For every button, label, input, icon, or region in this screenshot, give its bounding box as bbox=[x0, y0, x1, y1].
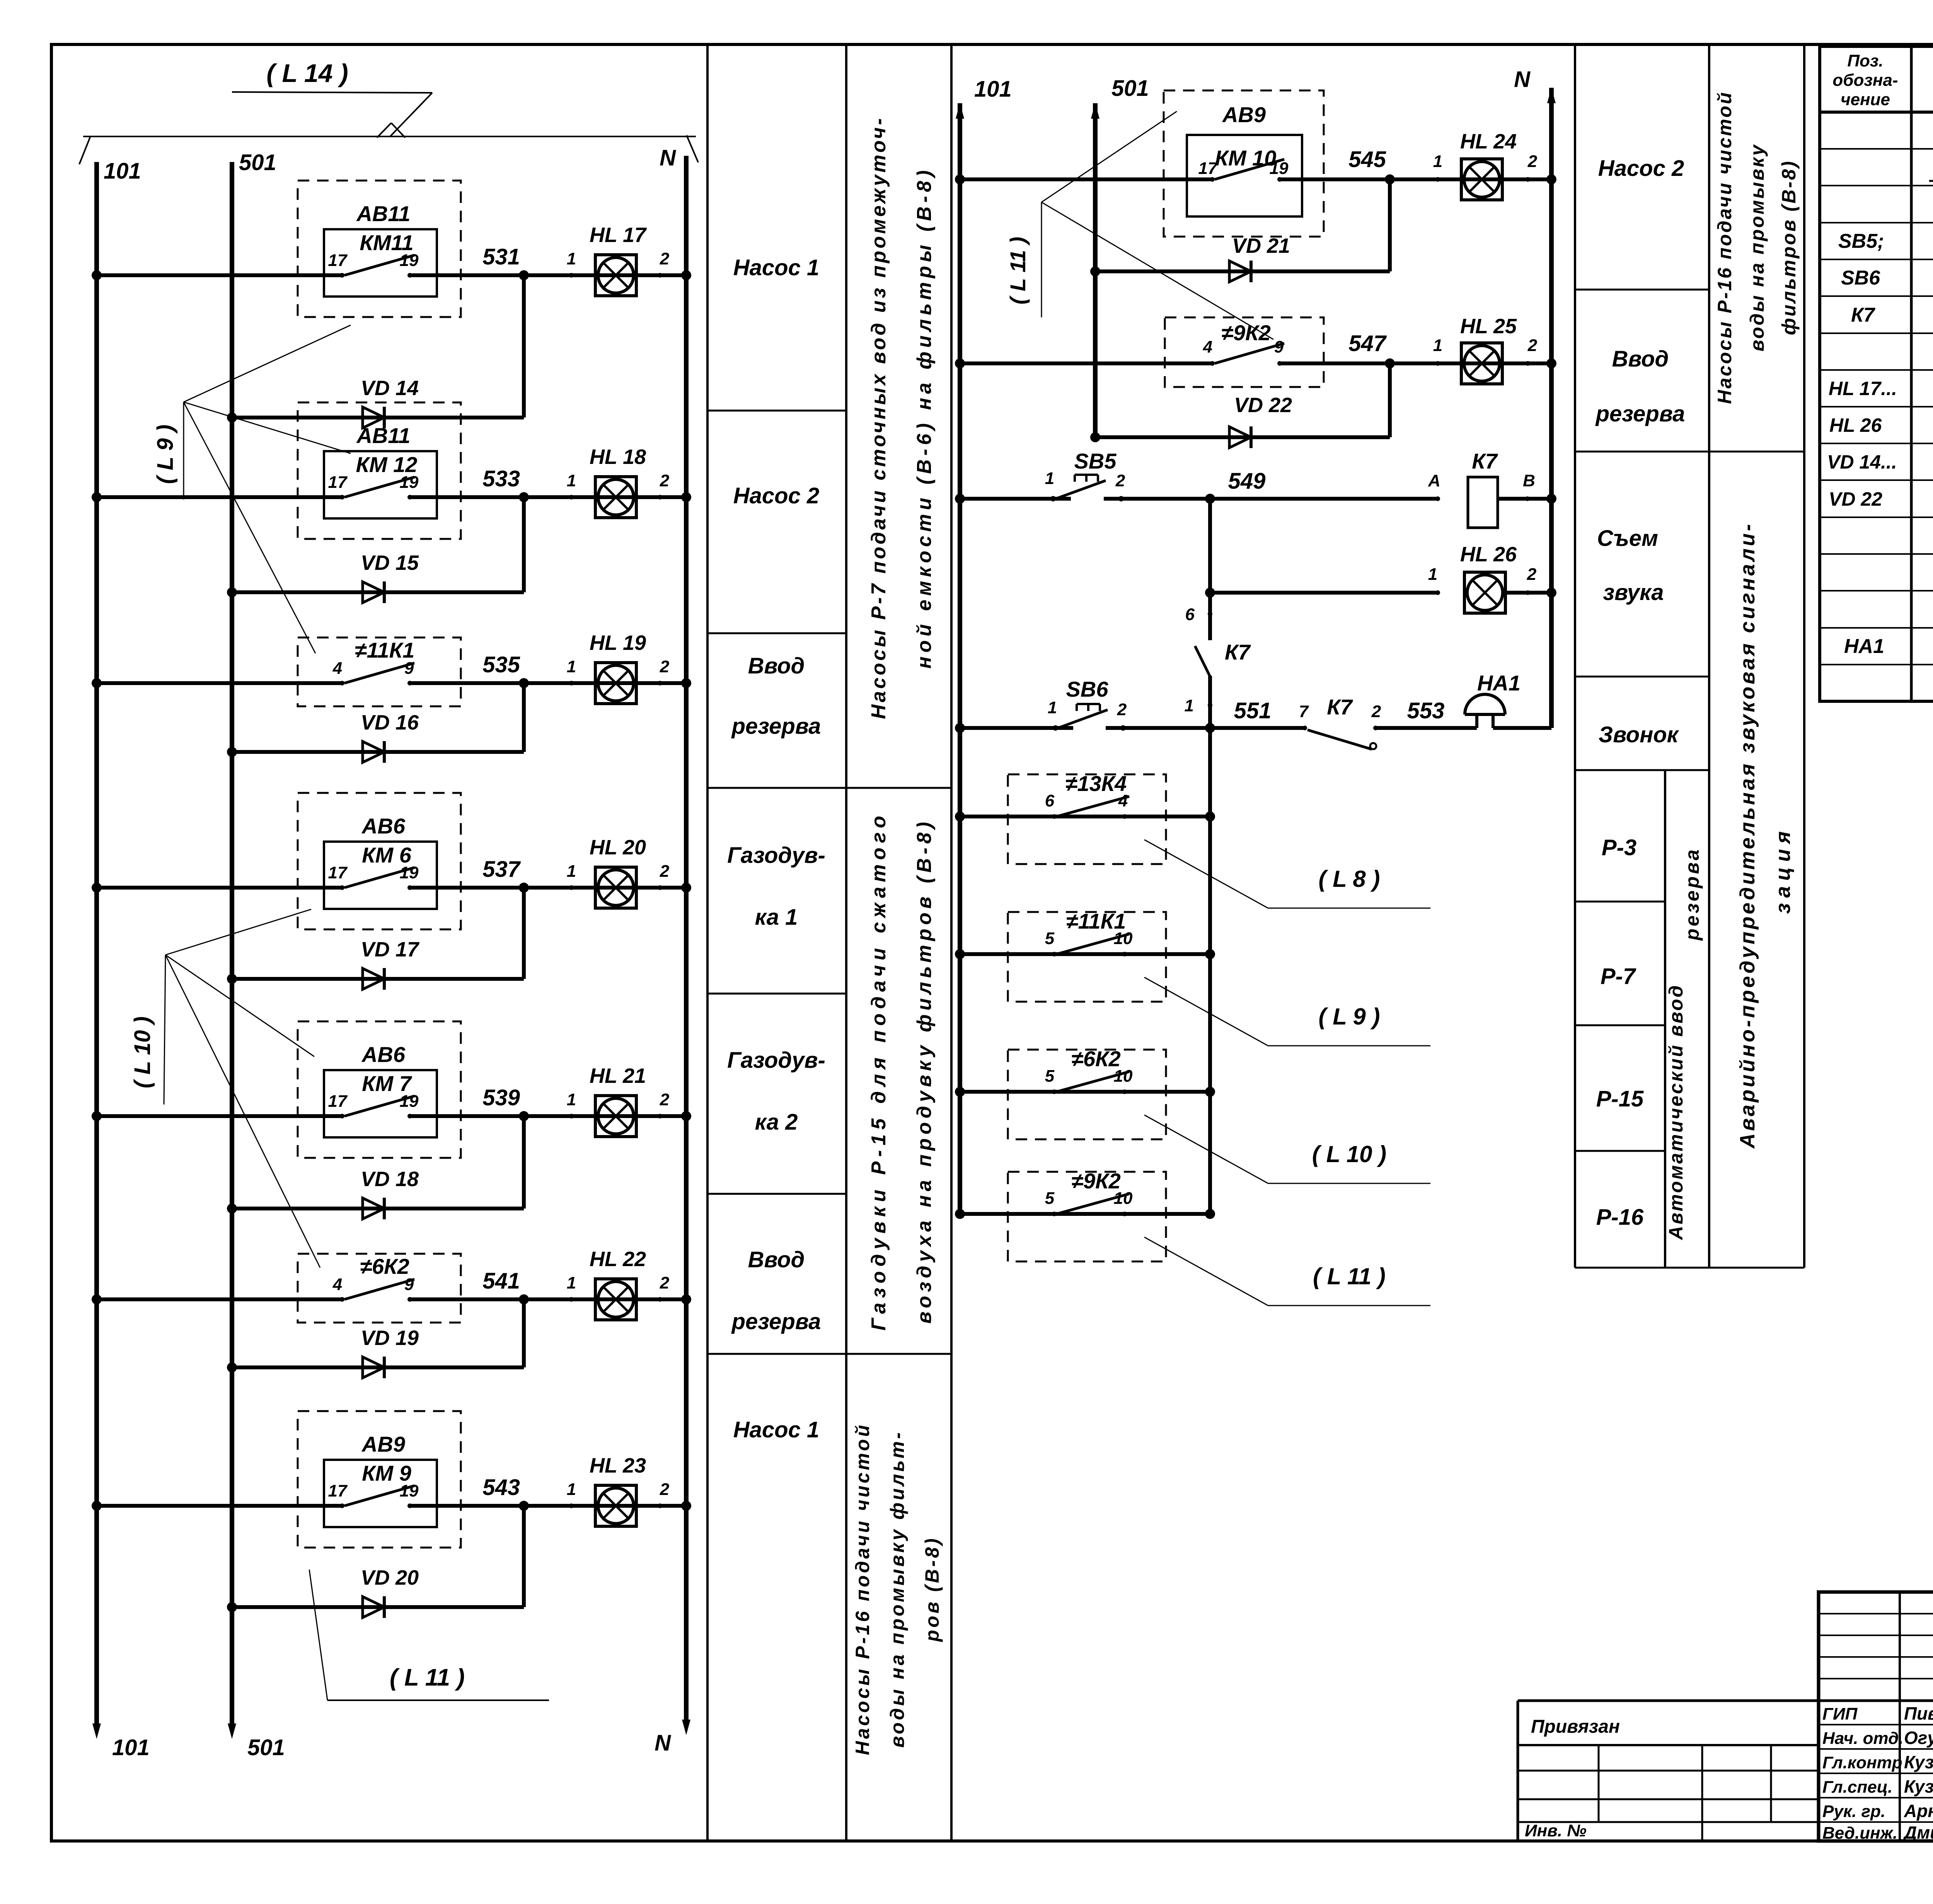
junction bus501 VD 17 bbox=[227, 974, 237, 984]
svg-text:≠11К1: ≠11К1 bbox=[355, 638, 414, 662]
svg-text:Дмитриева: Дмитриева bbox=[1902, 1822, 1933, 1843]
junction mid wire ≠11К1 bbox=[1205, 949, 1215, 959]
diode VD 16 bbox=[232, 750, 524, 754]
svg-text:≠9К2: ≠9К2 bbox=[1071, 1169, 1120, 1193]
svg-text:533: 533 bbox=[482, 466, 520, 491]
wire branch rung ≠9К2 bbox=[960, 1212, 1210, 1216]
svg-text:1: 1 bbox=[567, 657, 576, 676]
svg-text:1: 1 bbox=[567, 249, 576, 268]
junction bus101 rung 551 bbox=[955, 723, 965, 733]
contact ≠11К1 (pins 5-10) bbox=[1052, 952, 1057, 956]
lamp HL 20 bbox=[595, 867, 636, 908]
svg-text:531: 531 bbox=[482, 244, 520, 269]
diode VD 22 bbox=[1095, 435, 1390, 439]
wire 539 contact to lamp bbox=[410, 1114, 660, 1118]
svg-text:6: 6 bbox=[1185, 605, 1195, 624]
wire lamp HL25 to bus N bbox=[1528, 361, 1551, 365]
wire branch rung ≠11К1 bbox=[960, 952, 1210, 956]
svg-text:501: 501 bbox=[239, 150, 276, 175]
contact ≠6К2 (pins 4-9) bbox=[340, 1297, 344, 1302]
diode VD 17 bbox=[232, 977, 524, 981]
junction bus N rung 537 bbox=[681, 883, 691, 893]
svg-text:1: 1 bbox=[1428, 565, 1437, 584]
contact АВ11/КМ11 (pins 17-19) bbox=[340, 273, 344, 278]
junction bus101 ≠13К4 bbox=[955, 811, 965, 822]
leader and net label ( L 10 ) bbox=[1144, 1115, 1268, 1183]
svg-text:SB5;: SB5; bbox=[1838, 230, 1884, 252]
svg-text:ка 1: ка 1 bbox=[755, 905, 798, 930]
wire rung 543 from bus 101 bbox=[97, 1504, 342, 1508]
pin 1 of HL 17 bbox=[569, 273, 574, 278]
lamp HL 18 bbox=[595, 477, 636, 518]
wire rung 537 from bus 101 bbox=[97, 886, 342, 890]
svg-text:VD 18: VD 18 bbox=[361, 1168, 419, 1191]
svg-text:резерва: резерва bbox=[1595, 401, 1685, 426]
node 549 bbox=[1205, 494, 1215, 504]
svg-text:2: 2 bbox=[1371, 702, 1381, 721]
wire diode VD 15 to node 533 bbox=[522, 497, 526, 592]
svg-text:HL 17: HL 17 bbox=[590, 223, 647, 247]
pin 1 of HL 25 bbox=[1435, 361, 1440, 366]
svg-text:9: 9 bbox=[1274, 338, 1284, 356]
contact АВ6/КМ 6 (pins 17-19) bbox=[340, 885, 344, 890]
wire VD21 to node 545 bbox=[1388, 179, 1392, 271]
dashed enclosure АВ9 bbox=[298, 1411, 461, 1548]
lamp HL 25 bbox=[1461, 343, 1502, 384]
svg-text:( L 11 ): ( L 11 ) bbox=[1006, 237, 1030, 304]
pin 2 of HL 25 bbox=[1526, 361, 1530, 366]
svg-text:HL 24: HL 24 bbox=[1460, 130, 1517, 153]
svg-text:≠6К2: ≠6К2 bbox=[360, 1254, 409, 1278]
svg-text:АВ9: АВ9 bbox=[1222, 102, 1266, 127]
dashed enclosure ≠9К2 bbox=[1165, 317, 1324, 387]
junction node 549-551 HL26 bbox=[1205, 588, 1215, 598]
junction bus N rung 535 bbox=[681, 678, 691, 688]
pin 1 of HL 18 bbox=[569, 495, 574, 499]
svg-text:( L 10 ): ( L 10 ) bbox=[130, 1016, 155, 1088]
lamp HL 17 bbox=[595, 255, 636, 296]
relay coil K7 bbox=[1468, 477, 1498, 528]
svg-text:N: N bbox=[655, 1730, 671, 1756]
svg-text:ров (В-8): ров (В-8) bbox=[921, 1536, 943, 1642]
leader fan (L11) mid bbox=[1041, 202, 1042, 317]
pin 2 of HL 19 bbox=[658, 681, 662, 685]
pin 2 of K7 contact bbox=[1373, 726, 1378, 730]
svg-text:2: 2 bbox=[660, 249, 670, 268]
svg-text:Огурцов: Огурцов bbox=[1904, 1728, 1933, 1748]
svg-text:HL 26: HL 26 bbox=[1829, 414, 1882, 436]
contact АВ9/КМ 9 (pins 17-19) bbox=[340, 1503, 344, 1508]
dashed enclosure АВ9 bbox=[1164, 90, 1324, 237]
pin A of K7 bbox=[1435, 496, 1440, 501]
svg-text:547: 547 bbox=[1348, 331, 1387, 356]
svg-text:( L 14 ): ( L 14 ) bbox=[266, 59, 348, 87]
svg-text:( L 8 ): ( L 8 ) bbox=[1319, 866, 1380, 892]
dashed enclosure АВ11 bbox=[298, 402, 461, 539]
svg-text:резерва: резерва bbox=[731, 1309, 821, 1334]
svg-text:Привязан: Привязан bbox=[1531, 1716, 1620, 1737]
svg-text:VD 16: VD 16 bbox=[361, 711, 419, 734]
junction bus N HL26 bbox=[1546, 588, 1556, 598]
node 531 bbox=[519, 270, 529, 280]
wire rung 539 from bus 101 bbox=[97, 1114, 342, 1118]
lamp HL 21 bbox=[595, 1096, 636, 1137]
svg-text:N: N bbox=[660, 145, 676, 170]
svg-text:2: 2 bbox=[1117, 700, 1127, 719]
lamp HL 23 bbox=[595, 1485, 636, 1526]
dashed enclosure ≠11К1 bbox=[1008, 912, 1166, 1002]
svg-text:1: 1 bbox=[567, 1090, 576, 1109]
svg-text:541: 541 bbox=[482, 1268, 520, 1294]
svg-text:Насосы Р-16 подачи чистой: Насосы Р-16 подачи чистой bbox=[852, 1423, 873, 1755]
svg-text:К7: К7 bbox=[1851, 304, 1875, 326]
svg-text:КМ 12: КМ 12 bbox=[356, 452, 418, 477]
svg-text:539: 539 bbox=[482, 1085, 520, 1110]
contact АВ9/КМ10 (pins 17-19) bbox=[1210, 177, 1215, 182]
leader fan (L10) bbox=[164, 955, 165, 1105]
svg-text:≠6К2: ≠6К2 bbox=[1071, 1047, 1120, 1071]
svg-text:Гл.спец.: Гл.спец. bbox=[1822, 1778, 1892, 1797]
svg-text:К7: К7 bbox=[1327, 695, 1353, 719]
svg-text:VD 19: VD 19 bbox=[361, 1326, 419, 1350]
pin 7 of K7 contact bbox=[1302, 726, 1307, 730]
wire rung 545 from bus 101 bbox=[960, 177, 1212, 181]
node 537 bbox=[519, 883, 529, 893]
junction bus101 ≠11К1 bbox=[955, 949, 965, 959]
pin 1 of HL 26 bbox=[1435, 590, 1440, 595]
svg-text:HL 17...: HL 17... bbox=[1829, 378, 1897, 399]
wire 533 contact to lamp bbox=[410, 495, 660, 499]
svg-text:НА1: НА1 bbox=[1844, 635, 1884, 658]
svg-text:Звонок: Звонок bbox=[1599, 722, 1679, 747]
pin 2 of HL 20 bbox=[658, 885, 662, 890]
dashed enclosure АВ11 bbox=[298, 181, 461, 317]
svg-text:Ввод: Ввод bbox=[748, 653, 805, 678]
svg-text:Насос 1: Насос 1 bbox=[733, 255, 819, 280]
svg-text:зация: зация bbox=[1771, 826, 1795, 914]
contact ≠9К2 (pins 4-9) bbox=[1210, 361, 1215, 366]
svg-text:2: 2 bbox=[660, 1090, 670, 1109]
junction bus101 rung 537 bbox=[92, 883, 102, 893]
svg-text:фильтров (В-8): фильтров (В-8) bbox=[1778, 160, 1800, 335]
contact K7 in bell circuit bbox=[1307, 730, 1372, 749]
svg-text:17: 17 bbox=[328, 251, 348, 270]
svg-text:17: 17 bbox=[328, 1481, 348, 1500]
wire 541 contact to lamp bbox=[410, 1297, 660, 1301]
junction mid wire ≠9К2 bbox=[1205, 1209, 1215, 1219]
svg-text:КМ 7: КМ 7 bbox=[362, 1071, 413, 1096]
junction mid wire ≠13К4 bbox=[1205, 811, 1215, 822]
svg-text:HL 19: HL 19 bbox=[590, 631, 646, 655]
wire 531 contact to lamp bbox=[410, 273, 660, 277]
junction bus501 VD21 bbox=[1090, 266, 1100, 276]
svg-text:VD 14...: VD 14... bbox=[1827, 451, 1897, 473]
pin 1 of HL 19 bbox=[569, 681, 574, 685]
svg-text:1: 1 bbox=[1185, 696, 1194, 715]
svg-text:1: 1 bbox=[1045, 469, 1054, 488]
junction bus101 ≠9К2 bbox=[955, 1209, 965, 1219]
svg-text:535: 535 bbox=[482, 652, 520, 677]
wire 549 to relay K7 bbox=[1104, 497, 1438, 501]
svg-text:А: А bbox=[1428, 471, 1440, 490]
pin 1 of HL 20 bbox=[569, 885, 574, 890]
contactor box КМ11 bbox=[324, 229, 437, 297]
wire rung 541 from bus 101 bbox=[97, 1297, 342, 1301]
svg-text:1: 1 bbox=[567, 1480, 576, 1499]
pin 2 of HL 22 bbox=[658, 1297, 662, 1302]
svg-text:Насос 2: Насос 2 bbox=[1598, 156, 1684, 181]
svg-text:101: 101 bbox=[104, 159, 141, 184]
bell HA1 bbox=[1475, 714, 1478, 728]
svg-text:SB6: SB6 bbox=[1841, 267, 1880, 289]
svg-text:ной емкости (В-6) на фильтр: ной емкости (В-6) на фильтры (В-8) bbox=[913, 167, 936, 669]
wire lamp HL24 to bus N bbox=[1528, 177, 1551, 181]
node 547 bbox=[1385, 358, 1395, 368]
svg-text:HL 22: HL 22 bbox=[590, 1248, 646, 1271]
junction bus101 rung 543 bbox=[92, 1501, 102, 1511]
svg-text:2: 2 bbox=[660, 1480, 670, 1499]
dashed enclosure ≠6К2 bbox=[1008, 1050, 1166, 1139]
title block verticals bbox=[1899, 1592, 1901, 1841]
junction bus501 VD 14 bbox=[227, 413, 237, 423]
svg-text:Рук. гр.: Рук. гр. bbox=[1822, 1802, 1885, 1821]
svg-text:КМ 9: КМ 9 bbox=[362, 1461, 411, 1485]
parts table row lines bbox=[1820, 148, 1933, 150]
svg-text:537: 537 bbox=[482, 857, 521, 882]
svg-text:Ввод: Ввод bbox=[1612, 346, 1669, 372]
svg-text:КМ 10: КМ 10 bbox=[1215, 146, 1277, 170]
svg-text:HL 26: HL 26 bbox=[1460, 543, 1517, 566]
leader and net label ( L 9 ) bbox=[1144, 977, 1268, 1046]
wire diode VD 17 to node 537 bbox=[522, 888, 526, 979]
svg-text:1: 1 bbox=[1048, 698, 1057, 717]
svg-text:КМ 6: КМ 6 bbox=[362, 843, 412, 867]
bus 101 (mid ladder) bbox=[958, 103, 962, 1214]
wire rung 551 from bus 101 bbox=[960, 726, 1073, 730]
junction bus101 rung 541 bbox=[92, 1294, 102, 1304]
svg-text:Насосы Р-16 подачи чистой: Насосы Р-16 подачи чистой bbox=[1714, 91, 1735, 404]
svg-text:ГИП: ГИП bbox=[1822, 1705, 1858, 1723]
bus 501 (mid ladder) bbox=[1093, 103, 1098, 437]
dashed enclosure ≠9К2 bbox=[1008, 1172, 1166, 1261]
leader and net label ( L 11 ) bbox=[1144, 1237, 1268, 1306]
wire lamp to bus N rung 537 bbox=[660, 886, 686, 890]
wire 535 contact to lamp bbox=[410, 681, 660, 685]
svg-text:КМ11: КМ11 bbox=[360, 230, 413, 255]
svg-text:VD 17: VD 17 bbox=[361, 938, 420, 961]
pin 1 of HL 24 bbox=[1435, 177, 1440, 182]
svg-text:VD 22: VD 22 bbox=[1234, 394, 1292, 417]
parts table header line bbox=[1820, 111, 1933, 114]
junction bus101 rung 531 bbox=[92, 270, 102, 280]
pin 1 of HL 21 bbox=[569, 1114, 574, 1118]
wire branch rung ≠6К2 bbox=[960, 1090, 1210, 1094]
pin 2 of HL 23 bbox=[658, 1503, 662, 1508]
wire lamp to bus N rung 543 bbox=[660, 1504, 686, 1508]
node 533 bbox=[519, 492, 529, 502]
svg-text:( L 11 ): ( L 11 ) bbox=[390, 1664, 465, 1691]
svg-text:резерва: резерва bbox=[731, 714, 821, 739]
left label column lines bbox=[706, 46, 709, 1840]
svg-text:5: 5 bbox=[1045, 929, 1055, 948]
svg-text:2: 2 bbox=[660, 657, 670, 676]
wire lamp to bus N rung 539 bbox=[660, 1114, 686, 1118]
diode VD 18 bbox=[232, 1207, 524, 1210]
wire to lamp HL26 bbox=[1210, 591, 1438, 595]
wire 547 contact to lamp bbox=[1280, 361, 1528, 365]
svg-text:Пивторак: Пивторак bbox=[1904, 1703, 1933, 1723]
svg-text:HL 18: HL 18 bbox=[590, 445, 646, 469]
svg-text:Нач. отд.: Нач. отд. bbox=[1822, 1729, 1904, 1748]
push button SB5 bbox=[1050, 496, 1056, 501]
svg-text:≠9К2: ≠9К2 bbox=[1221, 320, 1270, 345]
contact ≠11К1 (pins 4-9) bbox=[340, 681, 344, 685]
svg-text:( L 10 ): ( L 10 ) bbox=[1312, 1141, 1386, 1167]
svg-text:5: 5 bbox=[1045, 1067, 1055, 1086]
svg-text:101: 101 bbox=[112, 1735, 150, 1760]
group line bracket (L14) bbox=[83, 136, 696, 137]
svg-text:( L 9 ): ( L 9 ) bbox=[1319, 1004, 1380, 1030]
contact АВ11/КМ 12 (pins 17-19) bbox=[340, 495, 344, 499]
junction bus101 rung 545 bbox=[955, 174, 965, 184]
wire 543 contact to lamp bbox=[410, 1504, 660, 1508]
svg-text:17: 17 bbox=[328, 863, 348, 882]
svg-text:Р-7: Р-7 bbox=[1601, 964, 1636, 989]
wire VD22 to node 547 bbox=[1388, 363, 1392, 437]
svg-text:Насос 1: Насос 1 bbox=[733, 1417, 819, 1442]
svg-text:551: 551 bbox=[1234, 698, 1272, 723]
svg-text:1: 1 bbox=[1433, 336, 1442, 355]
svg-text:звука: звука bbox=[1603, 580, 1664, 605]
svg-text:Гл.контр: Гл.контр bbox=[1822, 1753, 1902, 1772]
svg-text:1: 1 bbox=[567, 471, 576, 490]
dashed enclosure АВ6 bbox=[298, 1021, 461, 1158]
svg-text:7: 7 bbox=[1299, 702, 1309, 721]
wire rung 531 from bus 101 bbox=[97, 273, 342, 277]
svg-text:АВ11: АВ11 bbox=[356, 201, 410, 226]
node 541 bbox=[519, 1294, 529, 1304]
node 535 bbox=[519, 678, 529, 688]
svg-text:Поз.: Поз. bbox=[1847, 51, 1883, 70]
wire diode VD 20 to node 543 bbox=[522, 1506, 526, 1607]
bus N (mid ladder) bbox=[1549, 88, 1554, 728]
contact K7 (pins 6-1) vertical bbox=[1208, 612, 1212, 616]
push button SB6 bbox=[1053, 725, 1058, 731]
svg-text:Кузнецов: Кузнецов bbox=[1904, 1752, 1933, 1772]
svg-text:2: 2 bbox=[1527, 152, 1538, 171]
svg-text:( L 11 ): ( L 11 ) bbox=[1313, 1263, 1386, 1289]
leader and net label ( L 8 ) bbox=[1144, 840, 1268, 908]
svg-text:1: 1 bbox=[567, 862, 576, 881]
diode VD 20 bbox=[232, 1605, 524, 1609]
svg-text:АВ9: АВ9 bbox=[361, 1432, 405, 1456]
svg-text:HL 25: HL 25 bbox=[1460, 315, 1517, 338]
wire rung 549 from bus 101 bbox=[960, 497, 1071, 501]
svg-text:2: 2 bbox=[1527, 336, 1538, 355]
wire lamp to bus N rung 541 bbox=[660, 1297, 686, 1301]
diode VD 14 bbox=[232, 416, 524, 419]
svg-text:SB5: SB5 bbox=[1074, 449, 1117, 473]
junction bus501 VD 16 bbox=[227, 747, 237, 757]
leader arrow L14 bbox=[390, 93, 432, 136]
junction node 551 bbox=[1205, 723, 1215, 733]
diode VD 15 bbox=[232, 590, 524, 594]
svg-text:К7: К7 bbox=[1472, 449, 1498, 473]
leader fan (L9) bbox=[183, 402, 184, 499]
junction bus N rung 543 bbox=[681, 1501, 691, 1511]
junction bus N rung 533 bbox=[681, 492, 691, 502]
svg-text:VD 21: VD 21 bbox=[1232, 234, 1290, 257]
svg-text:HL 20: HL 20 bbox=[590, 836, 646, 859]
wire 537 contact to lamp bbox=[410, 886, 660, 890]
svg-text:2: 2 bbox=[1115, 471, 1125, 490]
svg-text:АВ11: АВ11 bbox=[356, 423, 410, 448]
svg-text:Арнаутова: Арнаутова bbox=[1904, 1801, 1933, 1821]
svg-text:17: 17 bbox=[328, 473, 348, 492]
svg-text:Р-3: Р-3 bbox=[1602, 835, 1636, 860]
svg-text:Газодувки Р-15 для подачи сжат: Газодувки Р-15 для подачи сжатого bbox=[868, 811, 890, 1330]
contact АВ6/КМ 7 (pins 17-19) bbox=[340, 1114, 344, 1118]
contact ≠9К2 (pins 5-10) bbox=[1052, 1212, 1057, 1216]
junction bus101 ≠6К2 bbox=[955, 1087, 965, 1097]
svg-text:2: 2 bbox=[1527, 565, 1537, 584]
right label column lines bbox=[1574, 46, 1576, 1268]
svg-text:HL 23: HL 23 bbox=[590, 1454, 646, 1477]
svg-text:4: 4 bbox=[332, 1275, 342, 1294]
svg-text:5: 5 bbox=[1045, 1189, 1055, 1208]
wire lamp to bus N rung 531 bbox=[660, 273, 686, 277]
contactor box КМ 10 bbox=[1187, 135, 1302, 216]
wire diode VD 18 to node 539 bbox=[522, 1116, 526, 1209]
junction bus101 rung 549 bbox=[955, 494, 965, 504]
lamp HL 26 bbox=[1464, 572, 1505, 613]
svg-text:4: 4 bbox=[332, 659, 342, 678]
bus N (left ladder) bbox=[684, 156, 689, 1720]
leader line L11 bottom bbox=[309, 1570, 327, 1700]
svg-text:501: 501 bbox=[1111, 76, 1149, 101]
dashed enclosure АВ6 bbox=[298, 793, 461, 929]
svg-text:обозна-: обозна- bbox=[1832, 71, 1898, 90]
junction bus501 VD22 bbox=[1090, 432, 1100, 442]
junction mid wire ≠6К2 bbox=[1205, 1087, 1215, 1097]
junction bus101 rung 547 bbox=[955, 358, 965, 368]
junction bus N rung 549 bbox=[1546, 494, 1556, 504]
pin 1 of HL 23 bbox=[569, 1503, 574, 1508]
svg-text:≠13К4: ≠13К4 bbox=[1065, 771, 1127, 796]
wire rung 533 from bus 101 bbox=[97, 495, 342, 499]
junction bus501 VD 19 bbox=[227, 1362, 237, 1372]
mid vertical wire 549-551 bbox=[1208, 499, 1212, 640]
junction bus101 rung 535 bbox=[92, 678, 102, 688]
svg-text:чение: чение bbox=[1841, 90, 1890, 109]
diode VD 19 bbox=[232, 1365, 524, 1369]
wire 551 bbox=[1106, 726, 1305, 730]
svg-text:Р-16: Р-16 bbox=[1596, 1205, 1644, 1230]
junction bus N rung 547 bbox=[1546, 358, 1556, 368]
node 543 bbox=[519, 1501, 529, 1511]
diode VD 21 bbox=[1095, 269, 1390, 273]
pin 2 of HL 18 bbox=[658, 495, 662, 499]
contactor box КМ 7 bbox=[324, 1070, 437, 1137]
svg-text:( L 9 ): ( L 9 ) bbox=[153, 424, 178, 484]
lamp HL 24 bbox=[1461, 159, 1502, 200]
svg-text:НА1: НА1 bbox=[1477, 671, 1520, 695]
svg-text:VD 15: VD 15 bbox=[361, 551, 419, 574]
svg-text:4: 4 bbox=[1203, 338, 1212, 356]
svg-text:553: 553 bbox=[1407, 698, 1445, 723]
title block frame bbox=[1819, 1592, 1933, 1841]
svg-text:Аварийно-предупредительная зв: Аварийно-предупредительная звуковая сигн… bbox=[1736, 522, 1759, 1149]
